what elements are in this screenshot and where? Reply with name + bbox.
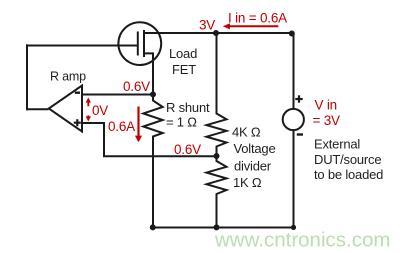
op-amp minus sign [75,91,80,93]
svg-text:to be loaded: to be loaded [314,167,383,182]
node 3V junction [213,30,219,36]
svg-text:1K Ω: 1K Ω [233,175,262,190]
svg-text:I in = 0.6A: I in = 0.6A [228,10,287,25]
wire gate feedback top [27,45,138,47]
svg-text:Load: Load [169,46,197,61]
svg-text:R shunt: R shunt [166,100,210,115]
node top right corner [289,31,295,37]
current arrow I in [223,23,278,29]
resistor R shunt [143,95,162,228]
svg-text:0.6A: 0.6A [108,119,135,134]
svg-text:External: External [314,137,360,152]
node divider bottom [214,224,220,230]
arrow 0V down [86,115,91,121]
current arrow 0.6A down [135,107,142,143]
source minus sign [297,133,303,135]
svg-text:FET: FET [172,62,196,77]
op-amp U1 [49,86,82,132]
svg-text:V in: V in [315,98,337,113]
node bottom right corner [291,225,296,230]
wire non-inverting input sense [82,123,217,156]
svg-text:Voltage: Voltage [234,141,276,156]
wire top rail [144,32,294,34]
svg-text:DUT/source: DUT/source [314,152,381,167]
wire left vertical [26,44,28,110]
svg-text:R amp: R amp [50,69,86,83]
wire inverting input [82,94,153,96]
svg-text:0V: 0V [92,103,108,118]
op-amp plus sign [74,119,81,126]
svg-text:4K Ω: 4K Ω [232,125,261,140]
svg-text:0.6V: 0.6V [123,79,150,94]
wire bottom rail [153,227,294,229]
node R shunt top [150,91,156,97]
source V1 external [283,109,304,130]
wire right vertical top [293,33,295,110]
svg-text:divider: divider [234,159,272,174]
arrow 0V up [86,98,91,107]
transistor Q1 Load FET [118,22,161,94]
wire op-amp output [26,108,49,110]
source plus sign [295,95,302,102]
wire right vertical bottom [293,130,295,228]
resistor R1 4K [207,33,227,156]
svg-text:0.6V: 0.6V [174,142,201,157]
svg-text:= 1 Ω: = 1 Ω [166,115,197,130]
node R shunt bottom [150,224,156,230]
svg-text:3V: 3V [199,18,215,33]
resistor R2 1K [207,156,227,227]
svg-text:= 3V: = 3V [313,113,341,128]
node divider junction [214,153,220,159]
svg-text:www.cntronics.com: www.cntronics.com [214,229,390,252]
